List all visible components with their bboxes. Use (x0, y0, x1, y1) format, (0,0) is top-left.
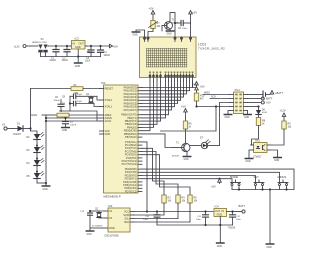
supply +5V arrow above R6 (181, 105, 187, 122)
node J4 (99, 45, 101, 47)
svg-text:OUT: OUT (215, 209, 221, 213)
svg-text:100nF: 100nF (104, 55, 111, 57)
crystal Q2 32.768kHz (92, 208, 104, 228)
wire AREF net (42, 114, 57, 116)
svg-text:IC1: IC1 (101, 81, 106, 85)
connector BATT input (239, 204, 246, 213)
svg-text:GND: GND (75, 65, 81, 68)
svg-text:HEBW21-2PIN: HEBW21-2PIN (32, 42, 47, 44)
wire bus MCU to LCD staircase (142, 81, 193, 131)
ground SV1 right (244, 111, 251, 120)
LED D5 (26, 172, 44, 184)
svg-text:SDA: SDA (124, 221, 129, 224)
wire PC3 to R4 (142, 152, 178, 196)
capacitor C9 22pF (62, 101, 94, 106)
svg-text:GND: GND (31, 113, 37, 117)
svg-text:PC7(TOSC2): PC7(TOSC2) (122, 162, 138, 166)
svg-text:PA7(ADC7): PA7(ADC7) (124, 108, 137, 112)
node left rail joins (45, 115, 47, 186)
resistor R3 (162, 195, 172, 215)
svg-text:TUXGR_16X2_R2: TUXGR_16X2_R2 (198, 46, 225, 50)
svg-text:100nF: 100nF (54, 100, 61, 102)
svg-text:100nF: 100nF (62, 60, 69, 62)
supply +12V arrow (280, 109, 286, 122)
wire (30, 45, 38, 47)
connector pad +5V out (248, 101, 271, 105)
svg-text:32.768kHz: 32.768kHz (92, 226, 102, 228)
wire SV1 to LCD E net (197, 106, 230, 108)
svg-text:GND: GND (87, 234, 92, 236)
svg-text:X1: X1 (41, 37, 45, 41)
svg-text:SCK: SCK (211, 96, 216, 99)
capacitor C6 100nF (54, 97, 65, 111)
svg-text:+5V: +5V (181, 105, 186, 109)
svg-text:78L05: 78L05 (228, 226, 236, 230)
crystal Q1 (86, 93, 93, 103)
resistor R5 (188, 195, 198, 222)
svg-text:220uF: 220uF (50, 60, 57, 62)
node LED chain junctions (36, 145, 38, 147)
svg-text:GND: GND (274, 160, 279, 162)
svg-text:MINUS: MINUS (278, 175, 287, 179)
ground opto emitter (270, 150, 281, 162)
resistor R4 (176, 195, 186, 219)
capacitor C13 (80, 210, 99, 228)
ground GND power (75, 57, 82, 68)
svg-text:BATT: BATT (239, 204, 246, 208)
svg-text:100nF: 100nF (70, 125, 77, 127)
svg-text:MODE: MODE (230, 175, 238, 179)
connector X1 +12V input plug (14, 45, 31, 49)
svg-text:4148: 4148 (262, 112, 268, 114)
resistor R8 (252, 118, 266, 146)
pushbutton S1 MODE (230, 175, 241, 190)
svg-text:+5V: +5V (149, 7, 154, 11)
supply +5V arrow at button rail (211, 178, 221, 189)
wire xtal ground rail (61, 111, 97, 121)
svg-text:+5V: +5V (200, 85, 205, 89)
resistor R6 (183, 121, 192, 143)
ground opto LED side (245, 150, 252, 163)
SV1 left pin stubs and wires (203, 95, 234, 111)
svg-text:GND: GND (244, 117, 249, 119)
capacitor C7 100nF (63, 117, 77, 128)
wire AGND net (46, 117, 100, 119)
wire LED chain to ground (37, 182, 46, 184)
node xtal left column (69, 96, 71, 111)
resistor R9 (270, 121, 292, 145)
pushbutton S2 SET (254, 175, 265, 190)
LCD bottom pins (149, 72, 193, 82)
node J2 (66, 45, 68, 47)
ground buttons (266, 244, 273, 249)
svg-text:GND: GND (225, 117, 230, 119)
node D1 junction (29, 127, 31, 129)
svg-text:+12V: +12V (280, 109, 286, 113)
transistor T1 BC548 (162, 13, 179, 37)
svg-text:PB7(SCK): PB7(SCK) (125, 135, 137, 139)
svg-text:100u: 100u (236, 219, 242, 221)
svg-text:+5V: +5V (266, 101, 271, 105)
wire base from MCU PB6 (142, 134, 172, 148)
svg-text:MISO: MISO (204, 92, 210, 95)
wire ground rail of power section (41, 56, 101, 58)
svg-text:22pF: 22pF (77, 101, 83, 103)
wire XTAL1 (94, 104, 100, 107)
supply +5V arrow above trimmer (149, 7, 155, 18)
svg-text:LTV817: LTV817 (253, 156, 262, 159)
wire +5V rail (88, 45, 109, 47)
svg-text:+12V: +12V (14, 45, 20, 49)
svg-text:AVCC: AVCC (105, 119, 112, 123)
resistor R1 reset pullup (31, 84, 100, 95)
svg-text:GND: GND (267, 247, 272, 249)
RTC IC3 DS1307 (104, 204, 134, 238)
capacitor C4 100nF (98, 46, 111, 57)
svg-text:22pF: 22pF (77, 94, 83, 96)
svg-text:R10: R10 (200, 95, 205, 98)
wire SDA net (134, 221, 190, 223)
svg-text:+BATT: +BATT (275, 91, 283, 95)
capacitor C11 (196, 210, 209, 225)
svg-text:PD7(OC2): PD7(OC2) (125, 189, 137, 193)
svg-text:+5V: +5V (192, 83, 197, 87)
LED D4 (26, 159, 44, 174)
svg-text:OK1: OK1 (255, 140, 261, 143)
ground IC4 (217, 243, 224, 248)
svg-text:DS1307S08: DS1307S08 (105, 234, 120, 238)
wire PD3 rail to S1 (142, 179, 232, 183)
svg-text:BC548: BC548 (172, 156, 179, 158)
node J5 (77, 55, 79, 57)
SV1 pin pads (235, 94, 242, 112)
ground SV1 left (224, 111, 231, 120)
wire button ground rail (232, 189, 294, 191)
battery BATT on SV1 pin (248, 91, 284, 99)
microcontroller IC1 MEGA8535 (100, 81, 143, 199)
svg-text:GND: GND (246, 161, 251, 163)
svg-text:GND: GND (133, 35, 138, 37)
wire RTC VCC rail to IC4 (134, 211, 214, 213)
supply +5V arrow above R10 (192, 83, 198, 94)
pushbutton S3 MINUS (278, 175, 289, 190)
svg-text:XTAL2: XTAL2 (105, 98, 113, 102)
wire SCL net (134, 218, 178, 220)
svg-text:GND: GND (217, 246, 222, 248)
svg-text:XTAL1: XTAL1 (105, 105, 113, 109)
svg-text:MEGA8535-P: MEGA8535-P (104, 195, 121, 199)
node J1 (55, 45, 57, 47)
capacitor C8 22pF (62, 94, 97, 99)
wire vertical from reset to D1 (30, 89, 32, 132)
SV1 right pin stubs (244, 95, 248, 111)
svg-text:1N4007: 1N4007 (13, 134, 22, 136)
wire PC4 to R5 (142, 155, 190, 195)
wire PC2 to R3 (142, 148, 164, 195)
diode D1 1N4007 (12, 123, 31, 136)
capacitor C2 100nF (62, 46, 71, 62)
LCD display LCD1 TUXGR_16X2_R2 (140, 37, 226, 78)
LCD top pins (144, 37, 192, 42)
optocoupler OK1 LTV817 (251, 140, 271, 159)
LCD dot matrix (147, 49, 188, 68)
diode D6 (248, 105, 268, 117)
wire PD1 rail to S3 (142, 172, 280, 182)
svg-text:SV1: SV1 (235, 88, 241, 92)
wire PD2 rail to S2 (142, 176, 256, 183)
svg-text:+5V: +5V (211, 185, 216, 189)
capacitor C5 100nF (174, 20, 191, 37)
svg-text:GND: GND (167, 34, 172, 36)
pin header SV1 (234, 88, 244, 114)
wire main +12V rail (49, 45, 72, 47)
supply +5V arrow (109, 44, 118, 48)
transistor T2 BC548 (172, 142, 190, 158)
connector X3 battery input (2, 124, 12, 131)
voltage regulator IC2 7805 (69, 37, 93, 57)
svg-text:IC4: IC4 (215, 204, 220, 208)
LED D7 indicator (190, 137, 220, 149)
svg-text:10uF: 10uF (85, 60, 91, 62)
resistor R2 (57, 110, 100, 117)
capacitor C12 (230, 210, 242, 225)
ground below LED chain (42, 183, 49, 191)
svg-text:+5V: +5V (113, 45, 118, 49)
svg-text:BATT: BATT (266, 97, 273, 101)
wire PB0 long vertical to RTC VCC (142, 142, 147, 212)
capacitor C1 220uF (50, 46, 60, 62)
svg-text:GND: GND (217, 213, 223, 217)
capacitor C3 10uF (85, 46, 94, 62)
svg-text:GND: GND (43, 189, 48, 191)
wire PD0 rail to S3 right end (142, 169, 294, 189)
ground below C7 (62, 128, 69, 133)
resistor R10 pullup (194, 93, 205, 107)
svg-text:IN: IN (222, 209, 225, 213)
svg-text:IC2: IC2 (75, 37, 80, 41)
wire rail down to ground (269, 190, 271, 245)
wire AVCC net (46, 120, 100, 122)
svg-text:GND: GND (109, 226, 115, 230)
supply +5V arrow LCD power bottom right (193, 81, 205, 89)
svg-text:GND: GND (75, 46, 81, 49)
wire SQW net (134, 214, 164, 216)
svg-text:GND: GND (105, 132, 111, 136)
svg-text:100n: 100n (182, 28, 188, 30)
svg-text:100n: 100n (143, 219, 149, 221)
svg-text:GND: GND (184, 159, 189, 161)
svg-text:100n: 100n (196, 219, 202, 221)
svg-text:GND: GND (62, 130, 67, 132)
ground below T2 (183, 154, 190, 162)
connector pad BATT (248, 97, 273, 101)
power jack X1 HEBW21 (32, 37, 49, 56)
capacitor C10 (143, 210, 160, 225)
trimmer R7 contrast (148, 17, 161, 37)
wire XTAL2 (97, 96, 100, 100)
svg-text:+5V: +5V (192, 11, 197, 15)
ground below T1 (166, 31, 173, 36)
svg-text:IC3: IC3 (108, 204, 113, 208)
LED D2 (26, 133, 44, 148)
svg-text:RESET: RESET (105, 87, 114, 91)
wire SV1 to buzzer (220, 103, 230, 146)
ground RTC (86, 228, 104, 236)
ground at LCD pin1 (132, 30, 144, 37)
svg-text:SET: SET (254, 175, 260, 179)
supply +5V arrow above C5 (189, 11, 197, 24)
regulator IC4 78L05 (214, 204, 239, 243)
wire cap ground rail (157, 224, 233, 226)
wire to LED chain (31, 131, 38, 134)
node J3 (90, 45, 92, 47)
LED D3 (26, 146, 44, 161)
